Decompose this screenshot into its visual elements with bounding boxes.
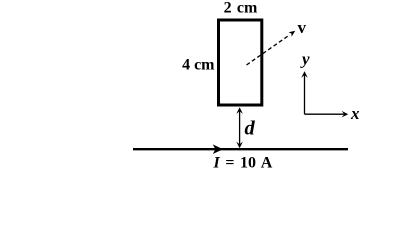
coordinate axes [301, 71, 348, 117]
rectangular loop [219, 20, 262, 105]
svg-text:I = 10 A: I = 10 A [213, 155, 273, 172]
y-axis [304, 74, 306, 115]
svg-text:4 cm: 4 cm [182, 57, 215, 74]
svg-text:y: y [300, 50, 310, 69]
velocity vector v (dashed arrow) [247, 31, 296, 65]
x-axis [305, 113, 346, 115]
svg-text:d: d [245, 118, 256, 140]
distance d double-headed arrow [236, 107, 243, 148]
svg-text:2 cm: 2 cm [224, 0, 258, 17]
svg-text:x: x [350, 104, 360, 123]
current direction arrowhead [213, 144, 223, 154]
current-carrying wire [133, 148, 348, 150]
svg-text:v: v [298, 18, 307, 37]
